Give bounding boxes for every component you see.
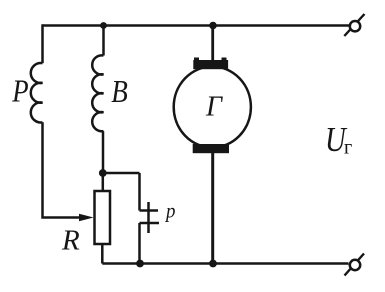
wire armature bottom lead [211,153,214,264]
wire armature top lead [211,26,214,61]
contact p top bar [140,209,159,212]
label U [325,119,347,158]
contact p vertical tick [147,202,150,233]
svg-text:Г: Г [205,92,223,123]
resistor R rheostat body [95,191,111,244]
terminal top-right slash [344,14,364,36]
svg-text:p: p [164,199,175,222]
svg-text:г: г [344,137,352,159]
wire p-branch vertical upper [138,173,141,211]
wire p-branch horizontal from junction [103,172,140,175]
terminal bottom-right slash [345,254,365,276]
svg-text:B: B [111,75,128,109]
label B [111,75,128,109]
label P [11,75,28,109]
wire rheostat bottom lead [101,244,104,264]
terminal bottom-right circle [350,260,360,270]
contact p bottom bar [140,222,160,225]
generator G (machine body, designator Г) [174,67,251,148]
node junction B / rheostat / p-branch [99,169,107,177]
inductor P [31,63,43,122]
wire left branch down to coil P [41,24,44,63]
node junction generator top bus [209,22,217,30]
brush top nub right [222,58,227,62]
svg-text:R: R [61,225,80,257]
node junction B top bus [100,22,107,29]
wire B coil bottom to junction [102,131,105,173]
brush bottom of generator [193,144,229,153]
node junction generator bottom bus [209,260,217,268]
wire junction to rheostat top [102,173,105,191]
arrowhead of rheostat wiper [79,214,94,221]
wire B branch from top bus to coil B [102,26,105,56]
wire top bus [43,24,350,27]
brush top nub left [194,58,199,62]
brush top of generator [193,60,228,69]
wire bottom bus [102,262,348,265]
label p contact [164,199,175,222]
wire p-branch vertical lower [138,223,141,264]
terminal top-right circle [350,21,360,31]
node junction p-branch bottom bus [136,260,144,268]
svg-text:P: P [11,75,28,109]
inductor B [92,55,103,131]
wire P coil bottom down to corner and right to arrow [43,122,82,217]
